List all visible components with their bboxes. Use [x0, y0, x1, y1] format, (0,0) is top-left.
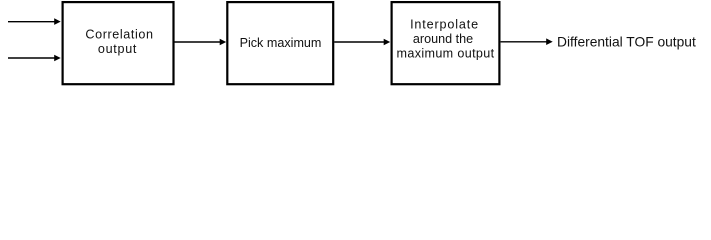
input wire 2: [8, 57, 55, 59]
input arrowhead 2: [54, 55, 61, 62]
svg-text:Differential TOF output: Differential TOF output: [557, 35, 696, 50]
arrowhead: box1 to box2: [220, 39, 227, 46]
block: Correlation output: [63, 2, 174, 84]
svg-text:Interpolate: Interpolate: [410, 18, 479, 32]
block: Pick maximum: [227, 2, 333, 84]
svg-text:around the: around the: [413, 32, 473, 46]
arrowhead: box3 to output label: [546, 38, 553, 45]
wire: box2 to box3: [334, 41, 384, 43]
arrowhead: box2 to box3: [384, 39, 391, 46]
block: Interpolate around the maximum output: [392, 2, 500, 84]
wire: box1 to box2: [175, 41, 221, 43]
svg-text:Pick maximum: Pick maximum: [240, 36, 322, 50]
wire: box3 to output label: [501, 41, 547, 43]
svg-text:output: output: [98, 42, 137, 56]
svg-text:Correlation: Correlation: [85, 27, 153, 41]
input wire 1: [8, 21, 55, 23]
svg-text:maximum output: maximum output: [397, 46, 495, 60]
input arrowhead 1: [54, 18, 61, 25]
